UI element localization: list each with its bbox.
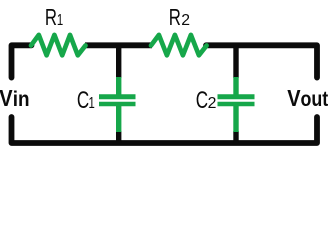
wire: top rail from R2 to top-right corner (Vout top)	[206, 45, 317, 77]
svg-text:V: V	[0, 85, 13, 112]
svg-text:in: in	[13, 88, 30, 111]
resistor R2	[151, 35, 207, 55]
wire: top-left corner (Vin top)	[12, 45, 32, 77]
label R1	[45, 5, 63, 30]
wire: bottom rail with left and right verticals	[12, 117, 318, 143]
svg-text:V: V	[287, 85, 301, 112]
svg-text:2: 2	[181, 12, 190, 29]
wire: C2 bottom lead (black)	[233, 131, 238, 143]
svg-text:R: R	[169, 5, 181, 30]
label Vin	[0, 85, 30, 112]
label Vout	[287, 85, 328, 112]
svg-text:out: out	[301, 88, 328, 112]
wire: C2 top lead (black)	[233, 45, 238, 78]
capacitor C1	[99, 77, 136, 132]
svg-text:1: 1	[57, 11, 63, 28]
svg-text:2: 2	[208, 95, 217, 112]
wire: C1 bottom lead (black)	[116, 131, 121, 143]
wire: top rail between R1 and R2	[85, 42, 152, 48]
svg-text:R: R	[45, 5, 57, 30]
svg-text:1: 1	[89, 94, 95, 111]
svg-text:C: C	[196, 87, 208, 113]
label C2	[196, 87, 217, 113]
svg-text:C: C	[77, 87, 89, 113]
label R2	[169, 5, 190, 30]
label C1	[77, 87, 95, 113]
capacitor C2	[218, 77, 255, 132]
resistor R1	[31, 35, 86, 55]
wire: C1 top lead (black)	[116, 45, 121, 78]
